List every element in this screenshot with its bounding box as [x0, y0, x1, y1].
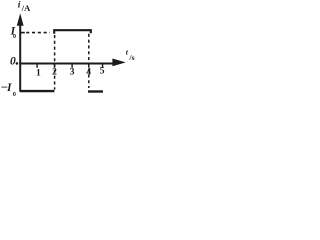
dashed vertical at t=4 — [88, 34, 90, 88]
tick t=4 — [88, 64, 90, 68]
svg-text:5: 5 — [100, 67, 105, 77]
tick t=1 — [36, 64, 38, 68]
svg-text:2: 2 — [52, 68, 57, 78]
y-axis arrowhead — [17, 13, 24, 25]
waveform bottom-left segment (i = -I0, 0 < t < 2) — [20, 90, 54, 92]
background — [0, 0, 136, 106]
tick t=5 — [102, 64, 104, 68]
svg-text:0: 0 — [13, 34, 16, 40]
I0 tick on y-axis — [20, 32, 25, 34]
svg-text:i: i — [18, 0, 21, 10]
svg-text:4: 4 — [86, 68, 91, 78]
svg-text:3: 3 — [70, 68, 75, 78]
y-axis — [19, 25, 21, 92]
svg-text:0: 0 — [13, 92, 16, 98]
dashed horizontal at I0 level — [26, 32, 50, 34]
svg-text:I: I — [6, 82, 12, 94]
tick t=2 — [54, 64, 56, 68]
origin dot — [16, 62, 19, 65]
waveform bottom-right segment (i = -I0, 4 < t < 5) — [88, 90, 103, 92]
x-axis — [19, 62, 113, 64]
waveform top segment (i = +I0, 2 < t < 4) — [54, 30, 91, 34]
tick t=3 — [71, 64, 73, 68]
svg-text:/s: /s — [129, 53, 135, 62]
svg-text:/A: /A — [21, 3, 31, 13]
dashed vertical at t=2 — [54, 35, 56, 90]
svg-text:1: 1 — [36, 68, 41, 78]
x-axis arrowhead — [112, 59, 125, 67]
svg-text:0: 0 — [10, 55, 16, 67]
